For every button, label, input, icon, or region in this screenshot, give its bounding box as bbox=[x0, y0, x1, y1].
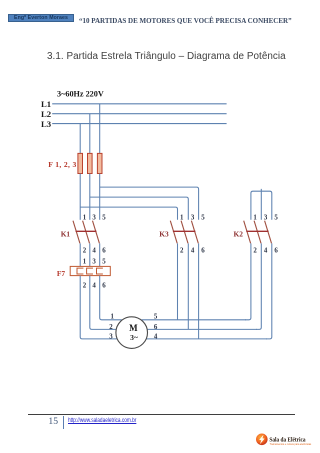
svg-text:6: 6 bbox=[274, 247, 278, 254]
svg-text:6: 6 bbox=[102, 247, 106, 254]
author badge text bbox=[8, 15, 74, 21]
wire star bridge over K2 bbox=[251, 189, 272, 220]
wire motor terminal 4 to K3 and K2 bbox=[147, 338, 267, 340]
svg-text:5: 5 bbox=[274, 214, 278, 221]
contactor K3 linkage bar bbox=[173, 230, 196, 232]
header quote text bbox=[79, 17, 291, 25]
svg-text:1: 1 bbox=[180, 214, 184, 221]
wire L2 drop to fuse F2 bbox=[89, 114, 91, 154]
overload F7 heater element pole 1 bbox=[77, 268, 83, 274]
overload F7 heater element pole 3 bbox=[97, 268, 103, 274]
svg-text:4: 4 bbox=[264, 247, 268, 254]
svg-text:L2: L2 bbox=[41, 109, 51, 119]
svg-text:3~60Hz 220V: 3~60Hz 220V bbox=[57, 90, 104, 99]
wire K2 pin6 down to star point bbox=[266, 243, 272, 339]
wire K3 pin2 down to motor wire 5 bbox=[177, 243, 179, 319]
wire K1 pole3 to F7 bbox=[99, 243, 101, 266]
fuse F2 bbox=[88, 153, 93, 173]
svg-text:6: 6 bbox=[201, 247, 205, 254]
svg-text:M: M bbox=[129, 323, 138, 333]
contactor K2 pole 1 blade bbox=[244, 221, 251, 244]
wire branch L2 to K3 pin 3 bbox=[90, 197, 189, 220]
logo Sala da Eletrica bbox=[252, 428, 312, 452]
svg-text:L1: L1 bbox=[41, 99, 51, 109]
svg-text:K3: K3 bbox=[159, 230, 169, 239]
contactor K1 pole 1 blade bbox=[73, 221, 80, 244]
wire K2 pin2 down to star point bbox=[245, 243, 251, 319]
wire K1 pole2 to F7 bbox=[89, 243, 91, 266]
wire branch L1 to K3 pin 5 bbox=[100, 187, 199, 220]
wire K2 pin4 down to star point bbox=[256, 243, 261, 329]
footer url bbox=[68, 417, 136, 424]
logo ball bbox=[256, 434, 268, 446]
wire L2 bus bbox=[52, 113, 226, 115]
wire fuse F1 down to K1 pole 1 bbox=[79, 174, 81, 220]
svg-text:4: 4 bbox=[154, 334, 158, 341]
svg-text:F 1, 2, 3: F 1, 2, 3 bbox=[48, 160, 76, 169]
svg-text:1: 1 bbox=[253, 214, 257, 221]
wire fuse F2 down to K1 pole 2 bbox=[89, 174, 91, 220]
page number 15 bbox=[42, 416, 58, 427]
svg-text:1: 1 bbox=[111, 314, 115, 321]
svg-text:1: 1 bbox=[83, 214, 87, 221]
wire motor terminal 6 to K3 and K2 bbox=[148, 328, 257, 330]
svg-text:3: 3 bbox=[92, 214, 96, 221]
wire K3 pin6 down to motor wire 4 bbox=[198, 243, 200, 339]
svg-text:2: 2 bbox=[83, 247, 87, 254]
wire L1 bus bbox=[52, 103, 226, 105]
logo lightning bolt bbox=[259, 435, 264, 445]
overload F7 heater element pole 2 bbox=[87, 268, 93, 274]
fuse F3 bbox=[97, 153, 102, 173]
wire K3 pin4 down to motor wire 6 bbox=[187, 243, 189, 329]
svg-text:3: 3 bbox=[109, 334, 113, 341]
svg-text:4: 4 bbox=[92, 247, 96, 254]
contactor K1 pole 3 blade bbox=[93, 221, 100, 244]
contactor K3 pole 3 blade bbox=[191, 221, 198, 244]
contactor K1 linkage bar bbox=[76, 230, 97, 232]
svg-text:L3: L3 bbox=[41, 119, 52, 129]
svg-text:3~: 3~ bbox=[130, 333, 138, 342]
svg-text:4: 4 bbox=[92, 283, 96, 290]
contactor K3 pole 2 blade bbox=[181, 221, 188, 244]
footer separator bbox=[63, 416, 64, 428]
contactor K2 pole 2 blade bbox=[254, 221, 261, 244]
svg-text:3: 3 bbox=[264, 214, 268, 221]
svg-text:3: 3 bbox=[191, 214, 195, 221]
contactor K2 pole 3 blade bbox=[265, 221, 272, 244]
svg-text:F7: F7 bbox=[57, 269, 66, 278]
svg-text:6: 6 bbox=[102, 283, 106, 290]
wire motor terminal 5 to K3 and K2 bbox=[142, 319, 246, 321]
wire F7 pole2 to motor terminal 2 bbox=[90, 276, 116, 330]
svg-text:3: 3 bbox=[92, 258, 96, 265]
author badge bbox=[8, 14, 74, 22]
svg-text:6: 6 bbox=[154, 324, 158, 331]
svg-text:4: 4 bbox=[191, 247, 195, 254]
wire F7 pole1 to motor terminal 3 bbox=[80, 276, 117, 339]
wire K1 pole1 to F7 bbox=[79, 243, 81, 266]
motor M body bbox=[116, 317, 148, 349]
contactor K1 pole 2 blade bbox=[83, 221, 90, 244]
wire branch L3 to K3 pin 1 bbox=[80, 207, 177, 220]
contactor K2 linkage bar bbox=[246, 230, 268, 232]
svg-text:5: 5 bbox=[102, 258, 106, 265]
section title bbox=[47, 51, 286, 62]
footer rule bbox=[28, 414, 295, 415]
svg-text:Treinamentos e cursos para ele: Treinamentos e cursos para eletricistas bbox=[270, 443, 312, 446]
svg-text:2: 2 bbox=[83, 283, 87, 290]
svg-text:2: 2 bbox=[180, 247, 184, 254]
svg-text:K1: K1 bbox=[61, 230, 71, 239]
svg-text:5: 5 bbox=[154, 314, 158, 321]
wire F7 pole3 to motor terminal 1 bbox=[100, 276, 122, 320]
overload relay F7 body bbox=[70, 266, 110, 275]
wire L3 bus bbox=[52, 123, 226, 125]
fuse F1 bbox=[78, 153, 83, 173]
svg-text:1: 1 bbox=[83, 258, 87, 265]
wire L3 drop to fuse F1 bbox=[79, 124, 81, 154]
svg-text:5: 5 bbox=[201, 214, 205, 221]
svg-text:2: 2 bbox=[253, 247, 257, 254]
svg-text:2: 2 bbox=[109, 324, 113, 331]
svg-text:5: 5 bbox=[102, 214, 106, 221]
wire L1 drop to fuse F3 bbox=[99, 104, 101, 154]
svg-text:K2: K2 bbox=[234, 230, 244, 239]
contactor K3 pole 1 blade bbox=[170, 221, 177, 244]
wire fuse F3 down to K1 pole 3 bbox=[99, 174, 101, 220]
